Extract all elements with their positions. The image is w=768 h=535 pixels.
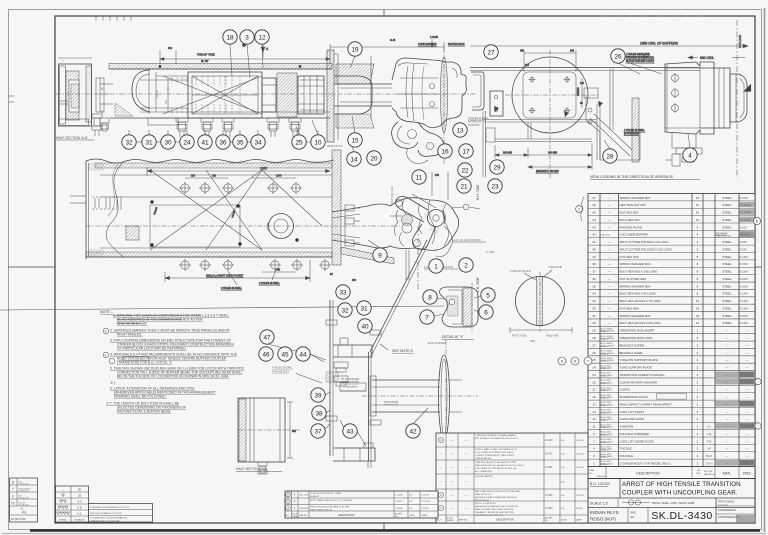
svg-text:—: — bbox=[440, 480, 443, 484]
svg-text:—: — bbox=[608, 196, 611, 200]
svg-text:CLEVIS PIN WITH WASHER: CLEVIS PIN WITH WASHER bbox=[620, 380, 657, 384]
svg-text:150: 150 bbox=[212, 175, 217, 178]
svg-text:—: — bbox=[451, 465, 454, 469]
balloon 47 bbox=[260, 330, 274, 344]
svg-text:COUPLER BODY (TYP TB/CBC ONLY): COUPLER BODY (TYP TB/CBC ONLY) bbox=[620, 461, 671, 465]
svg-text:56-BD-21: 56-BD-21 bbox=[600, 390, 608, 392]
balloon 17 bbox=[459, 144, 473, 158]
svg-text:1540: 1540 bbox=[276, 175, 282, 178]
knuckle contour bbox=[428, 200, 435, 244]
svg-text:56-BD-19: 56-BD-19 bbox=[600, 405, 608, 407]
balloon 28 bbox=[603, 149, 617, 163]
svg-text:SPEC: SPEC bbox=[743, 472, 752, 476]
svg-text:1067: 1067 bbox=[260, 167, 268, 171]
svg-text:SPRING WASHER M16: SPRING WASHER M16 bbox=[620, 262, 651, 266]
svg-text:—: — bbox=[608, 218, 611, 222]
svg-text:—: — bbox=[726, 366, 729, 370]
svg-text:—: — bbox=[465, 452, 468, 456]
svg-text:BOLT HEX M27: BOLT HEX M27 bbox=[620, 218, 641, 222]
svg-text:FIRST ISSUED: FIRST ISSUED bbox=[718, 501, 735, 504]
svg-text:TRANSITION SCREW COUPLING: TRANSITION SCREW COUPLING bbox=[620, 373, 666, 377]
balloon 27 bbox=[484, 45, 498, 59]
left yoke support bracket bbox=[96, 78, 178, 131]
svg-text:YOKE PIN HOLE ℇ: YOKE PIN HOLE ℇ bbox=[510, 270, 531, 273]
buffer foot bbox=[672, 132, 696, 148]
svg-text:G-41: G-41 bbox=[390, 39, 396, 42]
svg-text:SK.DL-3438: SK.DL-3438 bbox=[600, 402, 610, 404]
buffer beam view dimensions bbox=[470, 20, 754, 178]
svg-text:PLATES: PLATES bbox=[292, 515, 299, 518]
top dimension lines and labels bbox=[160, 36, 465, 118]
svg-text:2-ALTERED: 2-ALTERED bbox=[299, 507, 309, 510]
balloon chain links bbox=[136, 141, 311, 143]
dims near mechanism bbox=[432, 172, 448, 200]
svg-text:PACKING PLATE: PACKING PLATE bbox=[620, 225, 643, 229]
svg-text:8: 8 bbox=[428, 294, 432, 301]
svg-text:38: 38 bbox=[592, 262, 596, 266]
svg-text:43: 43 bbox=[346, 428, 354, 435]
svg-text:A.A.R. NO.10A CONTOUR: A.A.R. NO.10A CONTOUR bbox=[452, 239, 481, 242]
svg-text:IS:1364: IS:1364 bbox=[740, 300, 749, 303]
balloon 35 bbox=[233, 135, 247, 149]
balloon 11 bbox=[412, 170, 426, 184]
svg-text:16: 16 bbox=[696, 211, 700, 215]
svg-text:YOKE PIN SUPPORT PLATE: YOKE PIN SUPPORT PLATE bbox=[620, 358, 658, 362]
svg-text:CLEVIS: CLEVIS bbox=[620, 388, 630, 392]
svg-text:STEEL: STEEL bbox=[722, 306, 732, 310]
svg-text:56-BD-12: 56-BD-12 bbox=[600, 457, 608, 459]
small item-pointer circles bbox=[558, 197, 761, 365]
svg-text:NO.: NO. bbox=[395, 516, 399, 518]
svg-text:WAS LIST(QNT) 4M (COND) FOR TH: WAS LIST(QNT) 4M (COND) FOR THE bbox=[475, 508, 514, 511]
svg-text:56-BD-97: 56-BD-97 bbox=[310, 496, 320, 498]
balloon 22 bbox=[458, 163, 472, 177]
svg-text:CL-AD-07 IN NOTE NO. 4 WAS: CL-AD-07 IN NOTE NO. 4 WAS bbox=[310, 492, 342, 495]
balloon 21 bbox=[457, 179, 471, 193]
svg-text:BOLT HEX M16 X 140 LONG: BOLT HEX M16 X 140 LONG bbox=[620, 270, 659, 274]
svg-text:CONNECT LIST: CONNECT LIST bbox=[341, 381, 359, 384]
svg-text:26: 26 bbox=[614, 53, 622, 60]
svg-text:CALC PKG: CALC PKG bbox=[299, 494, 309, 497]
svg-text:YOKE SUPPORT PLATE: YOKE SUPPORT PLATE bbox=[620, 366, 653, 370]
svg-text:23: 23 bbox=[491, 183, 499, 190]
top bracket arm bbox=[333, 345, 372, 357]
svg-text:SK.DL-3430: SK.DL-3430 bbox=[651, 510, 712, 522]
inner pocket edges bbox=[100, 174, 332, 176]
svg-text:GRADE (REV/SL): GRADE (REV/SL) bbox=[716, 235, 732, 238]
svg-text:SIGN: SIGN bbox=[410, 515, 415, 517]
balloon 42 bbox=[406, 424, 420, 438]
svg-text:KNUCKLE: KNUCKLE bbox=[620, 454, 634, 458]
svg-text:346: 346 bbox=[276, 269, 281, 272]
svg-text:NO.: NO. bbox=[630, 515, 635, 519]
svg-text:SCALE 1:5: SCALE 1:5 bbox=[590, 502, 608, 506]
svg-text:(EXPENSION BG PVRL NT).: (EXPENSION BG PVRL NT). bbox=[475, 515, 504, 517]
top border tick marks bbox=[9, 16, 706, 102]
svg-text:SK.DL-3433: SK.DL-3433 bbox=[600, 380, 610, 382]
svg-text:154: 154 bbox=[101, 109, 104, 114]
svg-text:—: — bbox=[746, 395, 749, 399]
svg-text:L-2-586: L-2-586 bbox=[395, 495, 403, 497]
svg-text:RDSO SKEL-1782, SKDP-2485.: RDSO SKEL-1782, SKDP-2485. bbox=[652, 501, 695, 505]
svg-text:280: 280 bbox=[570, 50, 575, 53]
balloon 30 bbox=[161, 135, 175, 149]
svg-text:4: 4 bbox=[688, 152, 692, 159]
plunger rings bbox=[714, 68, 730, 128]
balloon 41 bbox=[198, 135, 212, 149]
svg-text:56-BD-17: 56-BD-17 bbox=[600, 420, 608, 422]
coupler head plan view with uncoupling mechanism bbox=[370, 172, 495, 354]
toggle small hatches bbox=[423, 211, 433, 219]
svg-text:1956 CRS. OF BUFFERS: 1956 CRS. OF BUFFERS bbox=[640, 42, 679, 46]
svg-text:36: 36 bbox=[219, 139, 227, 146]
svg-text:Sd/-: Sd/- bbox=[561, 482, 565, 484]
balloon 4 bbox=[683, 148, 697, 162]
svg-text:38: 38 bbox=[315, 410, 323, 417]
svg-text:Sd/-: Sd/- bbox=[409, 508, 413, 510]
svg-text:DESCRIPTION: DESCRIPTION bbox=[636, 472, 660, 476]
svg-text:12: 12 bbox=[696, 321, 700, 325]
svg-text:WAS 14.20 t/4°C: WAS 14.20 t/4°C bbox=[475, 493, 492, 496]
svg-text:—: — bbox=[465, 480, 468, 484]
svg-text:SPRING WASHER M24: SPRING WASHER M24 bbox=[620, 314, 651, 318]
svg-text:BUFFER FACE: BUFFER FACE bbox=[448, 43, 465, 46]
svg-text:—: — bbox=[726, 439, 729, 443]
bolts on verticals bbox=[326, 320, 381, 425]
svg-text:31: 31 bbox=[360, 305, 368, 312]
svg-text:—: — bbox=[726, 447, 729, 451]
svg-text:27: 27 bbox=[487, 49, 495, 56]
balloon 26 bbox=[611, 49, 625, 63]
svg-text:IS-549: IS-549 bbox=[740, 248, 748, 251]
svg-text:46: 46 bbox=[592, 203, 596, 207]
balloon leader lines bbox=[0, 44, 690, 446]
svg-text:SK.DL-3434: SK.DL-3434 bbox=[600, 387, 610, 389]
half section A-A view bbox=[56, 58, 110, 140]
svg-text:COUPLING LINE: COUPLING LINE bbox=[418, 43, 437, 46]
svg-text:16: 16 bbox=[696, 196, 700, 200]
svg-text:HALF SECTION ‘A-A’: HALF SECTION ‘A-A’ bbox=[56, 136, 88, 140]
svg-text:—: — bbox=[440, 465, 443, 469]
svg-text:SK.DL-3436: SK.DL-3436 bbox=[600, 395, 610, 397]
svg-text:23: 23 bbox=[592, 373, 596, 377]
svg-text:165: 165 bbox=[580, 82, 585, 85]
svg-text:NUT SLOTTED M24: NUT SLOTTED M24 bbox=[620, 277, 647, 281]
svg-text:COUPLER WITH UNCOUPLING GEAR.: COUPLER WITH UNCOUPLING GEAR. bbox=[622, 490, 738, 497]
svg-text:STEEL: STEEL bbox=[722, 292, 732, 296]
svg-text:Sd/-: Sd/- bbox=[561, 467, 565, 469]
svg-text:HEX THIN NUT M27: HEX THIN NUT M27 bbox=[620, 203, 647, 207]
svg-text:ALT: ALT bbox=[437, 519, 442, 522]
svg-text:OFF: OFF bbox=[696, 473, 701, 475]
svg-text:—: — bbox=[746, 410, 749, 414]
striker casting and coupler shank bbox=[334, 76, 392, 114]
svg-text:12: 12 bbox=[696, 299, 700, 303]
bottom flange bolt holes bbox=[179, 259, 191, 271]
svg-text:—: — bbox=[746, 336, 749, 340]
svg-text:—: — bbox=[726, 410, 729, 414]
svg-text:NOTE:- 4. DELETED.: NOTE:- 4. DELETED. bbox=[475, 503, 497, 505]
svg-text:14-5-93: 14-5-93 bbox=[576, 467, 584, 469]
svg-text:3,4 & 12 AND 22 STRUCK OFF, &: 3,4 & 12 AND 22 STRUCK OFF, & ADD bbox=[475, 451, 514, 454]
svg-text:32: 32 bbox=[125, 139, 133, 146]
svg-text:56-BD-11: 56-BD-11 bbox=[600, 464, 608, 466]
svg-text:—: — bbox=[726, 454, 729, 458]
svg-text:IS-549: IS-549 bbox=[740, 241, 748, 244]
svg-text:37: 37 bbox=[592, 270, 596, 274]
svg-text:HSR: HSR bbox=[530, 340, 535, 343]
svg-text:24: 24 bbox=[183, 139, 191, 146]
svg-text:(A ITEM 46(7,44) ADDED & ALT 4: (A ITEM 46(7,44) ADDED & ALT 4(ITEM 18) bbox=[475, 505, 518, 508]
svg-text:28: 28 bbox=[606, 153, 614, 160]
svg-text:1: 1 bbox=[434, 263, 438, 270]
svg-text:15: 15 bbox=[351, 137, 359, 144]
svg-text:7: 7 bbox=[578, 208, 580, 212]
svg-text:22: 22 bbox=[592, 380, 596, 384]
svg-text:ARRGT OF HIGH TENSILE TRANSITI: ARRGT OF HIGH TENSILE TRANSITION bbox=[622, 481, 741, 488]
svg-text:‘K’ 4167: ‘K’ 4167 bbox=[486, 251, 495, 254]
svg-text:EL 787: EL 787 bbox=[201, 60, 209, 63]
svg-text:TOLERANCES ON UNTOLERANCED: TOLERANCES ON UNTOLERANCED bbox=[90, 517, 128, 520]
svg-text:TABLE WAS 43-BD-34: TABLE WAS 43-BD-34 bbox=[310, 508, 333, 511]
svg-text:D.S. YOKE PIN: D.S. YOKE PIN bbox=[58, 73, 61, 90]
svg-text:33: 33 bbox=[592, 299, 596, 303]
svg-text:DIMENSIONS TO IS:2102 (M): DIMENSIONS TO IS:2102 (M) bbox=[90, 520, 120, 522]
svg-text:30: 30 bbox=[164, 139, 172, 146]
svg-text:OF PARTICULAR LOCO MAY BE REFE: OF PARTICULAR LOCO MAY BE REFERRED. bbox=[117, 347, 186, 351]
svg-text:56-BD-15: 56-BD-15 bbox=[600, 435, 608, 437]
pipe run dimensions bbox=[495, 143, 592, 173]
balloon 36 bbox=[216, 135, 230, 149]
svg-text:6: 6 bbox=[756, 220, 758, 224]
svg-text:914: 914 bbox=[168, 47, 173, 50]
svg-text:34: 34 bbox=[254, 139, 262, 146]
svg-text:400±5 HSR: 400±5 HSR bbox=[546, 335, 559, 338]
svg-text:56-BD-14: 56-BD-14 bbox=[600, 442, 608, 444]
svg-text:—: — bbox=[451, 506, 454, 510]
svg-text:30: 30 bbox=[592, 321, 596, 325]
svg-text:COUPLING LINE: COUPLING LINE bbox=[391, 186, 394, 205]
svg-text:390 MIN: 390 MIN bbox=[503, 152, 512, 155]
svg-text:250: 250 bbox=[520, 50, 525, 53]
svg-text:13: 13 bbox=[456, 127, 464, 134]
balloon 33 bbox=[336, 285, 350, 299]
svg-text:SPLIT COTTER PIN 6DIA X 63 LON: SPLIT COTTER PIN 6DIA X 63 LONG bbox=[620, 240, 670, 244]
svg-text:NUT HEX M16: NUT HEX M16 bbox=[620, 255, 639, 259]
buffer beam end view (arrow B) bbox=[470, 50, 747, 178]
svg-text:MTL IN SPEC COLUMN FOR DRG 11-: MTL IN SPEC COLUMN FOR DRG 11-B-41. bbox=[475, 438, 519, 440]
plan view of coupler and draft pocket bbox=[70, 150, 400, 271]
svg-text:1-87: 1-87 bbox=[707, 448, 712, 451]
svg-text:17: 17 bbox=[462, 148, 470, 155]
svg-text:NO.: NO. bbox=[545, 520, 549, 522]
svg-text:—: — bbox=[608, 299, 611, 303]
svg-text:STR SPECIAL: STR SPECIAL bbox=[716, 232, 728, 235]
svg-text:47: 47 bbox=[592, 196, 596, 200]
detail at Y bbox=[434, 283, 481, 340]
svg-text:—: — bbox=[608, 240, 611, 244]
svg-text:6.3: 6.3 bbox=[78, 500, 82, 504]
svg-text:YOKE PIN ℇ: YOKE PIN ℇ bbox=[548, 266, 562, 269]
svg-text:STEEL: STEEL bbox=[722, 299, 732, 303]
middle items bbox=[326, 372, 338, 382]
balloon 18 bbox=[223, 30, 237, 44]
svg-text:MATL: MATL bbox=[723, 472, 731, 476]
svg-text:PROJECTN: PROJECTN bbox=[19, 505, 29, 507]
loco end vertical bbox=[609, 68, 611, 130]
X braces bbox=[150, 170, 262, 250]
svg-text:—: — bbox=[726, 358, 729, 362]
svg-text:—: — bbox=[726, 336, 729, 340]
revision table A bbox=[436, 433, 588, 523]
svg-text:37: 37 bbox=[314, 428, 322, 435]
svg-text:L-2-460: L-2-460 bbox=[395, 508, 403, 510]
svg-text:SPRING WASHER M24: SPRING WASHER M24 bbox=[620, 284, 651, 288]
svg-text:HEAD STOCK: HEAD STOCK bbox=[327, 145, 343, 148]
svg-text:290 MIN: 290 MIN bbox=[548, 152, 557, 155]
svg-text:150: 150 bbox=[191, 175, 196, 178]
buffer assembly right bbox=[665, 62, 714, 68]
svg-text:152: 152 bbox=[165, 99, 168, 104]
svg-text:R.H. SIDE: R.H. SIDE bbox=[476, 184, 480, 200]
svg-text:STEEL: STEEL bbox=[722, 240, 732, 244]
balloon 15 bbox=[348, 133, 362, 147]
svg-text:Sd/-: Sd/- bbox=[409, 495, 413, 497]
headstock plan strip bbox=[332, 150, 341, 265]
svg-text:—: — bbox=[465, 465, 468, 469]
svg-text:16: 16 bbox=[441, 148, 449, 155]
svg-text:YOKE PIN: YOKE PIN bbox=[620, 425, 634, 429]
svg-text:42: 42 bbox=[409, 428, 417, 435]
svg-text:SK.DL-3432: SK.DL-3432 bbox=[600, 373, 610, 375]
balloon 3 bbox=[240, 30, 254, 44]
svg-text:24-5-96: 24-5-96 bbox=[576, 454, 584, 456]
svg-text:40: 40 bbox=[592, 247, 596, 251]
svg-text:—: — bbox=[608, 262, 611, 266]
svg-text:27: 27 bbox=[592, 343, 596, 347]
svg-text:—: — bbox=[726, 343, 729, 347]
svg-text:—: — bbox=[746, 343, 749, 347]
svg-text:SK.DL-3430/2: SK.DL-3430/2 bbox=[600, 351, 612, 353]
balloon 10 bbox=[311, 135, 325, 149]
plan view dimensions bbox=[147, 167, 418, 291]
svg-text:10: 10 bbox=[314, 139, 322, 146]
svg-text:IS:1364: IS:1364 bbox=[740, 307, 749, 310]
svg-text:ℇ OF COUPLER: ℇ OF COUPLER bbox=[428, 342, 446, 345]
svg-text:—: — bbox=[440, 452, 443, 456]
title block bbox=[588, 479, 755, 524]
svg-text:21: 21 bbox=[592, 388, 596, 392]
svg-text:6: 6 bbox=[484, 309, 488, 316]
svg-text:9: 9 bbox=[378, 252, 382, 259]
svg-text:29: 29 bbox=[493, 164, 501, 171]
svg-text:6 HOLES 25 DRILL: 6 HOLES 25 DRILL bbox=[221, 287, 243, 290]
svg-text:28: 28 bbox=[592, 336, 596, 340]
svg-text:56-BD-22: 56-BD-22 bbox=[600, 383, 608, 385]
svg-text:545: 545 bbox=[435, 174, 440, 177]
svg-text:∇ SURFACE ROUGHNESS TO IS-3073: ∇ SURFACE ROUGHNESS TO IS-3073 bbox=[90, 506, 130, 509]
left bracket under beam bbox=[586, 95, 640, 160]
svg-text:ITEM NOS (A) (B) (C) IN ITEM 4: ITEM NOS (A) (B) (C) IN ITEM 43 TO PRL bbox=[475, 461, 517, 464]
svg-text:NO: NO bbox=[697, 470, 701, 472]
svg-text:STR(-56-BD-30)": STR(-56-BD-30)" bbox=[475, 458, 492, 460]
svg-text:TOGGLE: TOGGLE bbox=[620, 447, 632, 451]
svg-text:56-BD-16: 56-BD-16 bbox=[600, 427, 608, 429]
svg-text:14: 14 bbox=[592, 410, 596, 414]
svg-text:C OF LOCO: C OF LOCO bbox=[739, 35, 742, 48]
svg-text:44: 44 bbox=[592, 218, 596, 222]
svg-text:IN POSITION: IN POSITION bbox=[624, 133, 639, 136]
balloon 7 bbox=[420, 310, 434, 324]
svg-text:4 HOLES 39 DRILL: 4 HOLES 39 DRILL bbox=[272, 367, 294, 370]
svg-text:19: 19 bbox=[351, 46, 359, 53]
svg-text:33: 33 bbox=[339, 289, 347, 296]
svg-text:862: 862 bbox=[292, 430, 297, 433]
balloon 2 bbox=[459, 258, 473, 272]
svg-text:—: — bbox=[746, 351, 749, 355]
revision table B bbox=[285, 491, 438, 518]
svg-text:56-BD-13: 56-BD-13 bbox=[600, 449, 608, 451]
drawing office reference table bbox=[10, 478, 38, 522]
gusset bbox=[341, 247, 394, 264]
svg-text:—: — bbox=[746, 454, 749, 458]
svg-text:23-5-89: 23-5-89 bbox=[576, 495, 584, 497]
svg-text:DESCRIPTION: DESCRIPTION bbox=[496, 518, 514, 522]
svg-text:—: — bbox=[746, 366, 749, 370]
svg-text:3-10-85: 3-10-85 bbox=[421, 508, 429, 510]
svg-text:—: — bbox=[608, 225, 611, 229]
balloon 9 bbox=[373, 248, 387, 262]
svg-text:RDSO (M.P): RDSO (M.P) bbox=[590, 517, 616, 522]
svg-text:12: 12 bbox=[258, 34, 266, 41]
svg-text:56-BD-18: 56-BD-18 bbox=[600, 412, 608, 414]
svg-text:—: — bbox=[726, 388, 729, 392]
lock/lever parts bbox=[428, 210, 445, 227]
svg-text:26: 26 bbox=[592, 351, 596, 355]
svg-text:BLOCK FOR M30 U-BOLT: BLOCK FOR M30 U-BOLT bbox=[626, 60, 655, 63]
svg-text:SK.DL-3444: SK.DL-3444 bbox=[600, 424, 610, 426]
svg-text:RA VALUE: RA VALUE bbox=[75, 519, 85, 522]
svg-text:22: 22 bbox=[461, 167, 469, 174]
svg-text:IS:1364: IS:1364 bbox=[740, 256, 749, 259]
svg-text:L0-508: L0-508 bbox=[545, 507, 553, 510]
svg-text:3-04: 3-04 bbox=[707, 440, 712, 443]
svg-text:—: — bbox=[726, 417, 729, 421]
svg-text:SEE NOTE 5.: SEE NOTE 5. bbox=[392, 349, 414, 353]
svg-text:8-0-86: 8-0-86 bbox=[576, 508, 583, 510]
operating rod pipe and support bracket bbox=[325, 300, 381, 468]
left end edge bbox=[85, 161, 87, 259]
loco buffer side view (item 42) bbox=[362, 340, 478, 462]
svg-text:STEEL: STEEL bbox=[722, 218, 732, 222]
svg-text:25: 25 bbox=[78, 494, 82, 498]
svg-text:INDIAN RLYS.: INDIAN RLYS. bbox=[590, 510, 620, 515]
balloon 23 bbox=[488, 179, 502, 193]
svg-text:—: — bbox=[746, 439, 749, 443]
svg-text:IS:226: IS:226 bbox=[740, 226, 748, 229]
svg-text:IS:1364: IS:1364 bbox=[740, 293, 749, 296]
svg-text:2-64: 2-64 bbox=[707, 433, 712, 436]
half section B-B bbox=[236, 398, 300, 474]
svg-text:45: 45 bbox=[281, 351, 289, 358]
svg-text:SYMBOL: SYMBOL bbox=[59, 520, 68, 522]
svg-text:—: — bbox=[465, 493, 468, 497]
svg-text:③ ƒ: ③ ƒ bbox=[110, 381, 116, 385]
svg-text:DRAWING SHALL BE FOLLOWED.: DRAWING SHALL BE FOLLOWED. bbox=[114, 395, 167, 399]
svg-text:NO: NO bbox=[589, 473, 593, 475]
svg-text:BRACKET HGER: BRACKET HGER bbox=[620, 351, 643, 355]
svg-text:24-5-98: 24-5-98 bbox=[576, 440, 584, 442]
